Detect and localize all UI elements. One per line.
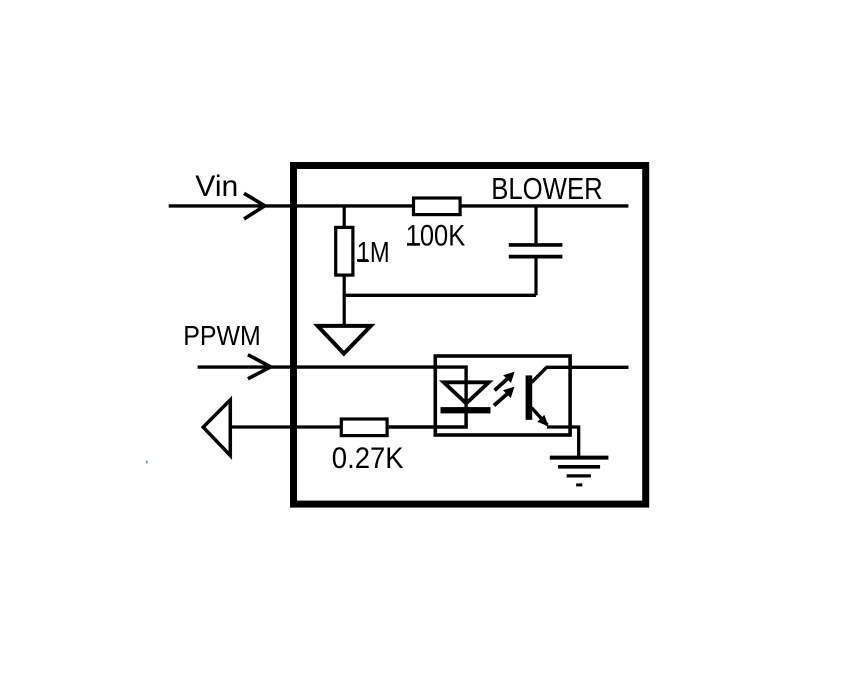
svg-text:0.27K: 0.27K xyxy=(332,442,404,475)
svg-text:1M: 1M xyxy=(357,237,390,269)
svg-text:100K: 100K xyxy=(406,220,466,253)
svg-text:PPWM: PPWM xyxy=(183,320,260,351)
svg-text:Vin: Vin xyxy=(195,170,238,203)
svg-text:BLOWER: BLOWER xyxy=(491,171,603,206)
